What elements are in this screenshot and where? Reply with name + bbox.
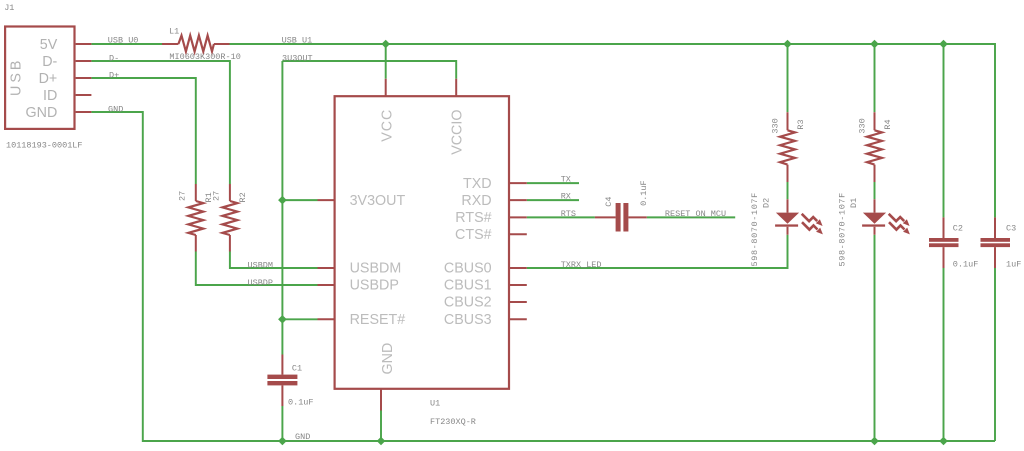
svg-text:C2: C2	[953, 224, 963, 234]
resistor R4	[867, 112, 882, 182]
svg-text:RTS#: RTS#	[455, 210, 491, 226]
value 598-8070-107F of D1	[838, 192, 848, 266]
svg-text:1uF: 1uF	[1006, 259, 1021, 269]
wire net TX	[527, 182, 579, 184]
value 27 of R2	[212, 191, 222, 201]
label J1	[4, 3, 14, 13]
svg-text:D2: D2	[762, 198, 772, 208]
svg-text:TXRX_LED: TXRX_LED	[561, 260, 602, 270]
svg-text:USBDP: USBDP	[350, 278, 399, 294]
wire net 3V3OUT vertical	[281, 61, 283, 355]
svg-text:598-8070-107F: 598-8070-107F	[838, 192, 848, 266]
label C4	[604, 196, 614, 206]
U1 right pin stubs	[509, 183, 527, 319]
svg-text:CBUS3: CBUS3	[444, 312, 492, 328]
value 27 of R1	[178, 191, 188, 201]
svg-text:D1: D1	[849, 198, 859, 208]
wire D1 to GND	[874, 235, 876, 441]
svg-text:5V: 5V	[40, 37, 58, 53]
op-amp U1 IC body FT230XQ	[335, 96, 509, 389]
U1 left pin stubs	[318, 200, 335, 319]
wire R4 to D1	[874, 182, 876, 199]
svg-text:GND: GND	[108, 105, 123, 115]
svg-text:J1: J1	[4, 3, 14, 13]
LED D1	[862, 199, 910, 235]
net label RX	[561, 192, 571, 202]
svg-text:MI0603K300R-10: MI0603K300R-10	[169, 52, 240, 62]
wire net 3V3OUT top to VCCIO	[282, 61, 456, 79]
svg-text:27: 27	[178, 191, 188, 201]
name D2	[762, 198, 772, 208]
U1 pin name USBDP	[350, 278, 399, 294]
wire net USB_V0 (5V to L1)	[91, 43, 162, 45]
svg-text:27: 27	[212, 191, 222, 201]
junction VCC tap	[381, 40, 390, 49]
wire net USBDP (R1 to IC)	[196, 252, 318, 286]
resistor R2	[222, 184, 237, 252]
svg-text:FT230XQ-R: FT230XQ-R	[430, 417, 476, 427]
U1 pin name RESET#	[350, 312, 406, 328]
value 330 of R4	[857, 118, 867, 133]
connector pin name D-	[42, 54, 57, 70]
svg-text:RXD: RXD	[461, 193, 491, 209]
svg-text:VCC: VCC	[380, 109, 396, 142]
name R1	[204, 192, 214, 202]
net label TXRX_LED	[561, 260, 602, 270]
label C2	[953, 224, 963, 234]
svg-text:RESET#: RESET#	[350, 312, 406, 328]
svg-text:R2: R2	[238, 192, 248, 202]
value 1uF of C3	[1006, 259, 1021, 269]
U1 pin name RTS#	[455, 210, 491, 226]
value MI0603K300R-10	[169, 52, 240, 62]
net label GND (usb)	[108, 105, 123, 115]
svg-text:GND: GND	[380, 343, 396, 375]
name R3	[796, 119, 806, 129]
wire net GND rail	[91, 112, 995, 441]
name R4	[883, 119, 893, 129]
label C3	[1006, 224, 1016, 234]
wire R3 to D2	[787, 182, 789, 199]
net label RESET_ON_MCU	[665, 209, 726, 219]
connector pin name 5V	[40, 37, 58, 53]
U1 bottom pin stub GND	[380, 389, 382, 411]
svg-text:3U3OUT: 3U3OUT	[282, 54, 313, 64]
resistor R3	[780, 112, 795, 182]
name D1	[849, 198, 859, 208]
connector pin name ID	[43, 88, 57, 104]
connector pin name GND	[26, 105, 58, 121]
svg-text:USB_U0: USB_U0	[108, 36, 139, 46]
label USB connector name	[9, 58, 25, 96]
net label USB_V0	[108, 36, 139, 46]
U1 pin name CBUS1	[444, 278, 492, 294]
svg-text:CBUS0: CBUS0	[444, 261, 492, 277]
wire VCC drop	[385, 44, 387, 79]
wire R4 drop	[874, 44, 876, 112]
wire net RESET_ON_MCU	[647, 216, 735, 218]
inductor L1	[162, 36, 230, 52]
connector J1 body	[5, 27, 74, 129]
value 0.1uF of C4	[639, 180, 649, 206]
svg-text:TX: TX	[561, 175, 571, 185]
wire C3 to GND	[994, 268, 996, 441]
svg-text:10118193-0001LF: 10118193-0001LF	[6, 141, 83, 151]
svg-text:CTS#: CTS#	[455, 227, 492, 243]
svg-text:USBDM: USBDM	[248, 261, 274, 271]
svg-text:598-8070-107F: 598-8070-107F	[750, 192, 760, 266]
U1 pin name CBUS3	[444, 312, 492, 328]
wire RESET# wire	[282, 318, 317, 320]
svg-text:C3: C3	[1006, 224, 1016, 234]
svg-text:GND: GND	[295, 432, 310, 442]
label U1	[430, 398, 440, 408]
svg-text:TXD: TXD	[463, 176, 492, 192]
junction R4 top	[870, 40, 879, 49]
svg-text:0.1uF: 0.1uF	[639, 180, 649, 206]
svg-text:330: 330	[857, 118, 867, 133]
label L1	[169, 27, 179, 37]
U1 pin name 3V3OUT	[350, 193, 406, 209]
svg-text:3V3OUT: 3V3OUT	[350, 193, 406, 209]
net label RTS	[561, 209, 576, 219]
svg-text:RX: RX	[561, 192, 571, 202]
wire 3V3OUT pin stub wire	[282, 199, 317, 201]
wire net D- to R2	[91, 61, 230, 184]
wire net USBDM (R2 to IC)	[230, 252, 318, 269]
net label D+	[109, 70, 119, 80]
U1 top pin stubs VCC VCCIO	[386, 79, 457, 97]
net label USBDP	[248, 278, 274, 288]
name R2	[238, 192, 248, 202]
junction C2 gnd	[939, 437, 948, 446]
capacitor C2	[929, 217, 959, 268]
label C1	[292, 363, 302, 373]
svg-text:330: 330	[770, 118, 780, 133]
net label USB_V1	[282, 36, 313, 46]
label 10118193-0001LF	[6, 141, 83, 151]
value 0.1uF of C1	[288, 398, 314, 408]
svg-text:ID: ID	[43, 88, 57, 104]
U1 pin name USBDM	[350, 261, 402, 277]
value FT230XQ-R	[430, 417, 476, 427]
svg-text:USBDM: USBDM	[350, 261, 402, 277]
svg-text:GND: GND	[26, 105, 58, 121]
capacitor C1	[267, 355, 297, 407]
capacitor C4	[595, 203, 647, 232]
svg-text:0.1uF: 0.1uF	[288, 398, 314, 408]
junction IC gnd	[377, 437, 386, 446]
junction D1 gnd	[870, 437, 879, 446]
svg-text:VCCIO: VCCIO	[450, 110, 466, 155]
capacitor C3	[981, 217, 1011, 268]
wire C2 drop	[943, 44, 945, 217]
svg-text:D+: D+	[39, 71, 58, 87]
U1 pin name GND	[380, 343, 396, 375]
value 330 of R3	[770, 118, 780, 133]
wire net D+ to R1	[91, 78, 195, 184]
wire net RTS	[527, 216, 595, 218]
net label 3V3OUT	[282, 54, 313, 64]
U1 pin name TXD	[463, 176, 492, 192]
connector J1 pin stubs	[76, 44, 92, 112]
wire C1 bottom to GND	[281, 406, 283, 441]
junction R3 top	[783, 40, 792, 49]
wire net RX	[527, 199, 579, 201]
U1 pin name VCCIO	[450, 110, 466, 155]
junction RESET row	[278, 315, 287, 324]
junction 3V3OUT pin	[278, 196, 287, 205]
wire C2 to GND	[943, 268, 945, 441]
U1 pin name CBUS2	[444, 295, 492, 311]
svg-text:D-: D-	[109, 53, 119, 63]
svg-text:D-: D-	[42, 54, 57, 70]
wire IC GND to rail	[380, 411, 382, 442]
U1 pin name VCC	[380, 109, 396, 142]
svg-text:CBUS1: CBUS1	[444, 278, 492, 294]
wire net USB_V1 top rail to C3	[230, 44, 996, 217]
junction C1 gnd	[278, 437, 287, 446]
value 0.1uF of C2	[953, 259, 979, 269]
svg-text:R4: R4	[883, 119, 893, 129]
svg-text:CBUS2: CBUS2	[444, 295, 492, 311]
net label TX	[561, 175, 571, 185]
value 598-8070-107F of D2	[750, 192, 760, 266]
svg-text:USBDP: USBDP	[248, 278, 274, 288]
svg-text:D+: D+	[109, 70, 119, 80]
svg-text:L1: L1	[169, 27, 179, 37]
connector pin name D+	[39, 71, 58, 87]
resistor R1	[188, 184, 203, 252]
U1 pin name CBUS0	[444, 261, 492, 277]
net label GND (rail)	[295, 432, 310, 442]
wire net TXRX_LED	[527, 235, 788, 268]
net label USBDM	[248, 261, 274, 271]
U1 pin name CTS#	[455, 227, 492, 243]
svg-text:R3: R3	[796, 119, 806, 129]
LED D2	[775, 199, 823, 235]
svg-text:C1: C1	[292, 363, 302, 373]
net label D-	[109, 53, 119, 63]
wire R3 drop	[787, 44, 789, 112]
svg-text:RESET_ON_MCU: RESET_ON_MCU	[665, 209, 726, 219]
svg-text:RTS: RTS	[561, 209, 576, 219]
junction C2 top	[939, 40, 948, 49]
svg-text:USB_U1: USB_U1	[282, 36, 313, 46]
U1 pin name RXD	[461, 193, 491, 209]
svg-text:0.1uF: 0.1uF	[953, 259, 979, 269]
svg-text:C4: C4	[604, 196, 614, 206]
svg-text:U1: U1	[430, 398, 440, 408]
svg-text:USB: USB	[9, 58, 25, 96]
